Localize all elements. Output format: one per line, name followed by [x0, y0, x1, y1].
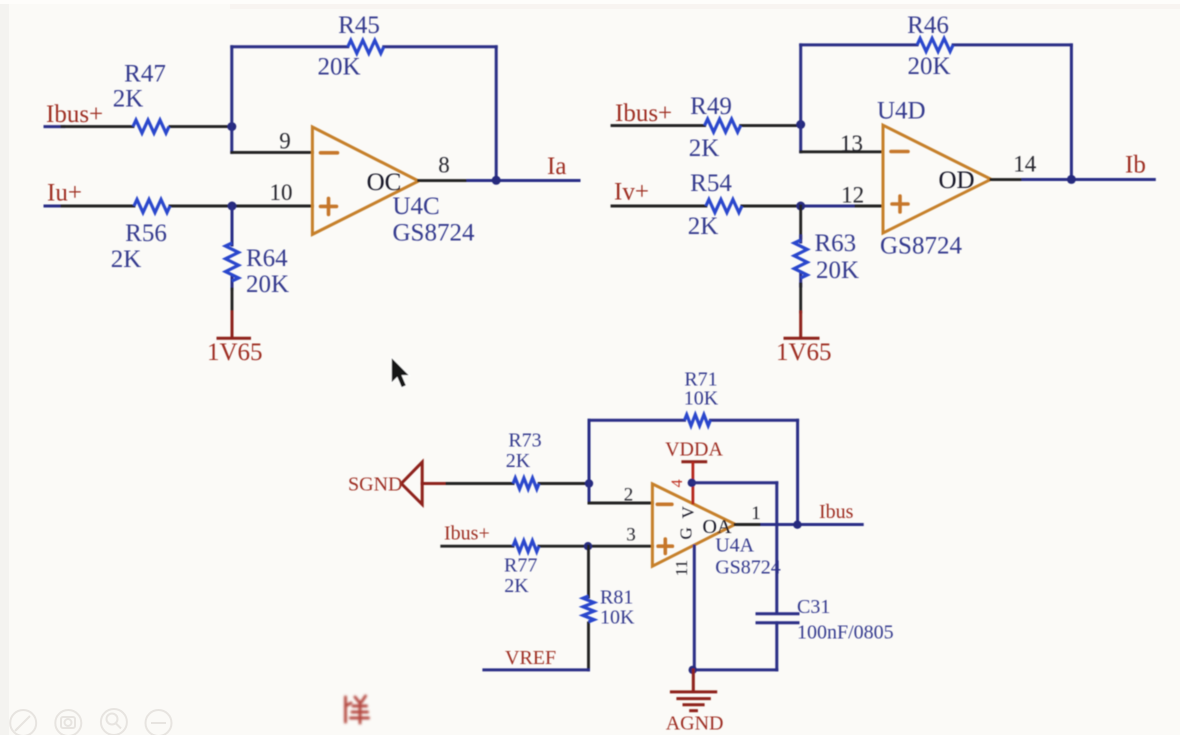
svg-text:Ib: Ib [1125, 152, 1146, 179]
resistor R47 [133, 120, 169, 133]
plus symbol U4A [658, 539, 672, 553]
wire left feedback vertical [230, 47, 233, 153]
svg-text:VDDA: VDDA [665, 439, 723, 461]
wire pin 2 [589, 420, 652, 503]
wire R63 branch [799, 206, 802, 337]
toolbar icon pencil [10, 710, 36, 735]
svg-text:2: 2 [624, 485, 634, 506]
wire pin4 rail to C31 [692, 483, 777, 613]
node at AGND [689, 666, 697, 674]
svg-text:C31: C31 [797, 596, 830, 618]
svg-text:10K: 10K [684, 388, 719, 410]
minus symbol U4D [891, 150, 908, 154]
svg-text:20K: 20K [246, 271, 289, 298]
value label R77 2K [504, 555, 537, 598]
svg-text:Ia: Ia [547, 153, 566, 180]
minus symbol U4A [657, 502, 672, 506]
value label R64 20K [246, 245, 289, 298]
svg-text:20K: 20K [816, 257, 859, 284]
power bar VDDA [683, 460, 706, 463]
svg-text:2K: 2K [689, 135, 720, 162]
svg-text:R47: R47 [124, 61, 166, 88]
svg-text:U4A: U4A [715, 535, 754, 557]
svg-text:3: 3 [626, 525, 636, 546]
svg-text:VREF: VREF [505, 647, 556, 669]
value label R71 10K [684, 369, 719, 410]
resistor R49 [705, 119, 741, 132]
svg-text:Iu+: Iu+ [47, 180, 82, 207]
op-amp U4A [652, 484, 735, 566]
wire Ibus+ input lead [45, 125, 232, 128]
wire output pin 1 [735, 523, 862, 526]
svg-text:U4D: U4D [877, 98, 926, 125]
wire feedback vertical U4A [796, 420, 799, 525]
svg-text:U4C: U4C [393, 193, 440, 220]
svg-text:R54: R54 [690, 170, 732, 197]
svg-text:AGND: AGND [666, 713, 724, 735]
power symbol SGND [401, 462, 447, 504]
toolbar icon minus [146, 710, 172, 735]
svg-text:4: 4 [669, 479, 686, 487]
svg-text:100nF/0805: 100nF/0805 [797, 622, 894, 644]
svg-text:1: 1 [751, 503, 761, 524]
wire feedback top [232, 45, 496, 48]
value label R56 2K [111, 220, 167, 273]
svg-text:R46: R46 [907, 12, 949, 39]
resistor R54 [706, 200, 742, 213]
svg-text:R64: R64 [246, 245, 288, 272]
value label R73 2K [506, 430, 542, 473]
svg-text:20K: 20K [317, 54, 360, 81]
svg-text:12: 12 [841, 183, 864, 208]
node at R49 output [796, 120, 805, 129]
op-amp U4C [312, 127, 418, 234]
value label R47 2K [113, 61, 166, 113]
node at plus input U4A [584, 542, 592, 550]
wire Ibus+ input lead right [612, 124, 801, 127]
toolbar icon camera [55, 710, 81, 735]
svg-text:2K: 2K [688, 213, 719, 240]
wire pin 9 [232, 151, 313, 154]
wire feedback top U4A [589, 419, 798, 422]
wire pin 13 [801, 150, 883, 153]
wire pin 11 [693, 546, 696, 670]
wire R81 branch [587, 546, 590, 670]
power bar 1V65 left [218, 337, 250, 340]
value label R63 20K [815, 230, 860, 284]
svg-text:10K: 10K [600, 607, 635, 629]
node at output U4A [793, 521, 801, 529]
svg-text:9: 9 [279, 129, 291, 154]
power bar 1V65 right [785, 337, 818, 340]
wire ground rail [693, 668, 777, 671]
node at output U4D [1067, 175, 1076, 184]
svg-text:GS8724: GS8724 [393, 220, 475, 247]
svg-text:2K: 2K [504, 575, 529, 597]
svg-text:11: 11 [672, 560, 691, 576]
svg-text:1V65: 1V65 [776, 339, 832, 366]
resistor R73 [513, 478, 539, 489]
node at R73 output [585, 479, 593, 487]
op-amp U4D [883, 125, 991, 233]
svg-text:10: 10 [270, 180, 293, 205]
svg-text:1V65: 1V65 [207, 339, 263, 366]
svg-text:13: 13 [840, 131, 863, 156]
wire right feedback vertical right circuit [1070, 45, 1073, 180]
node at output U4C [492, 176, 501, 185]
svg-text:R56: R56 [125, 220, 167, 247]
svg-text:Iv+: Iv+ [614, 179, 649, 206]
svg-text:R45: R45 [338, 12, 380, 39]
svg-text:G: G [676, 527, 695, 539]
wire output pin 8 [419, 179, 579, 182]
node at pin 4 [688, 479, 696, 487]
svg-text:14: 14 [1013, 152, 1037, 177]
wire VREF rail [484, 668, 589, 671]
svg-text:SGND: SGND [348, 474, 402, 496]
node at R47 output [227, 122, 236, 131]
plus symbol U4C [321, 198, 337, 214]
svg-text:OC: OC [367, 169, 402, 196]
svg-text:Ibus+: Ibus+ [444, 523, 490, 545]
ground AGND [671, 670, 715, 711]
value label R54 2K [688, 170, 733, 240]
resistor R71 [685, 415, 711, 426]
svg-text:OD: OD [938, 167, 974, 194]
svg-text:Ibus+: Ibus+ [46, 101, 103, 128]
wire feedback top right circuit [801, 43, 1072, 46]
svg-text:R63: R63 [815, 230, 857, 257]
resistor R81 [583, 596, 594, 622]
wire Iv+ input lead [612, 205, 883, 208]
svg-text:8: 8 [438, 153, 450, 178]
node at plus input [228, 202, 237, 211]
svg-text:R77: R77 [504, 555, 537, 577]
svg-text:2K: 2K [111, 246, 142, 273]
capacitor C31 [757, 614, 798, 670]
svg-text:R49: R49 [690, 93, 732, 120]
wire left feedback vertical right circuit [799, 45, 802, 152]
svg-text:V: V [678, 506, 697, 519]
node at plus input right [796, 202, 805, 211]
value label R49 2K [689, 93, 732, 162]
annotation chinese char [346, 696, 369, 723]
toolbar icon magnifier [101, 709, 127, 735]
svg-text:20K: 20K [907, 53, 950, 80]
wire SGND to R73 [447, 482, 589, 485]
minus symbol U4C [321, 151, 338, 155]
value label R81 10K [600, 587, 635, 629]
svg-text:GS8724: GS8724 [880, 233, 962, 260]
svg-text:2K: 2K [506, 450, 531, 472]
wire right feedback vertical [495, 47, 498, 181]
mouse cursor [391, 357, 410, 388]
svg-text:Ibus+: Ibus+ [615, 100, 672, 127]
svg-text:R81: R81 [600, 587, 633, 609]
svg-text:R73: R73 [508, 430, 541, 452]
value label C31 100nF/0805 [797, 596, 894, 644]
wire Ibus+ lead bottom [442, 545, 653, 548]
resistor R64 [226, 243, 239, 281]
wire pin 4 [692, 462, 695, 505]
value label R46 20K [907, 12, 950, 80]
resistor R56 [134, 200, 170, 213]
value label R45 20K [317, 12, 379, 81]
svg-text:GS8724: GS8724 [715, 557, 781, 579]
resistor R46 [917, 38, 953, 51]
svg-text:2K: 2K [113, 86, 144, 113]
wire R64 branch [231, 206, 234, 337]
resistor R77 [513, 541, 539, 552]
plus symbol U4D [892, 196, 908, 212]
resistor R63 [794, 240, 807, 278]
resistor R45 [348, 40, 384, 53]
svg-text:Ibus: Ibus [819, 501, 854, 523]
wire output pin 14 [991, 178, 1154, 181]
wire Iu+ input lead [45, 205, 312, 208]
